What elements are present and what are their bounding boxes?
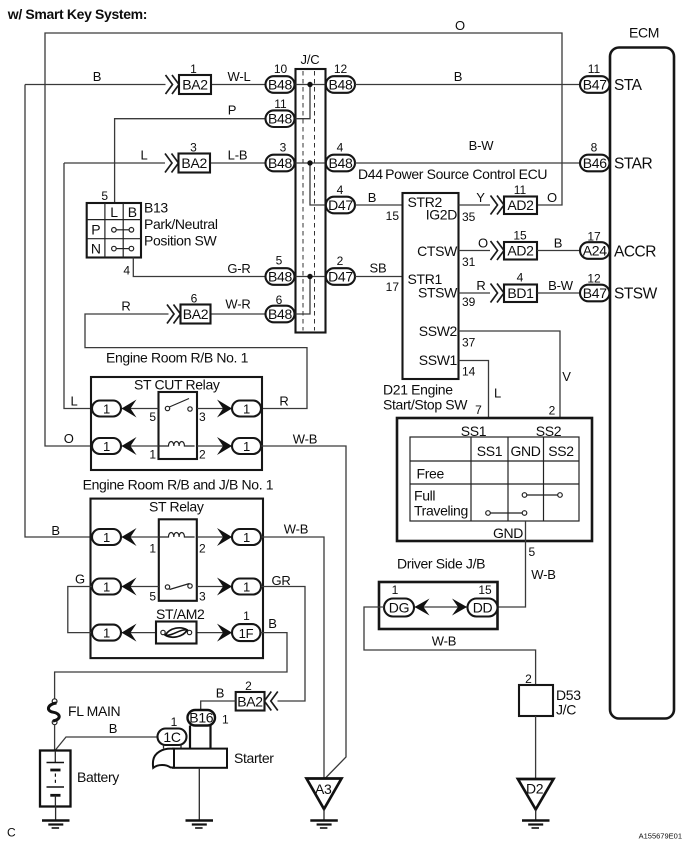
svg-text:STA: STA — [614, 77, 643, 94]
wire J/C internal riser to D47 pin4 — [310, 163, 326, 205]
svg-text:W-R: W-R — [225, 297, 250, 312]
terminal oval 1 row1 left — [92, 401, 121, 417]
svg-text:10: 10 — [274, 62, 288, 76]
connector B48 pin 12 — [326, 62, 355, 93]
svg-text:1: 1 — [171, 715, 178, 729]
svg-text:B: B — [554, 236, 562, 251]
wire B-W row3 right to ECM STAR — [355, 162, 580, 164]
svg-text:B: B — [368, 190, 376, 205]
svg-text:2: 2 — [525, 672, 532, 686]
svg-text:5: 5 — [149, 590, 156, 604]
wire J/C internal pin11 riser — [295, 85, 311, 119]
svg-text:L: L — [110, 204, 118, 220]
svg-text:3: 3 — [199, 410, 206, 424]
svg-text:W-B: W-B — [284, 522, 308, 537]
wire row3 L-B — [210, 162, 266, 164]
wire G loop row2 to row3 — [68, 587, 92, 633]
wire row2 P from B13 pin5 up to B48 pin11 — [115, 119, 266, 203]
svg-text:Full: Full — [414, 488, 435, 504]
svg-text:J/C: J/C — [301, 52, 320, 67]
svg-text:B48: B48 — [328, 155, 353, 171]
connector D47 pin 4 — [326, 183, 355, 213]
svg-text:N: N — [91, 241, 101, 257]
svg-text:D47: D47 — [328, 269, 353, 285]
svg-text:Traveling: Traveling — [414, 503, 468, 519]
svg-text:1: 1 — [243, 580, 250, 595]
wire D53 to ground D2 — [535, 716, 537, 779]
wire SSW2 to SS2 column — [459, 331, 561, 437]
wire B from D47 pin4 to D44 STR2 — [355, 204, 403, 206]
connector BD1 pin 4 — [491, 271, 538, 303]
label B13 Park/Neutral Position SW — [144, 200, 218, 249]
svg-text:R: R — [476, 278, 485, 293]
connector BA2 pin 6 — [167, 292, 211, 324]
junction box Driver Side J/B — [379, 582, 498, 629]
connector B48 pin 3 — [266, 141, 295, 172]
svg-text:ACCR: ACCR — [614, 244, 656, 261]
connector B48 pin 10 — [266, 62, 295, 93]
svg-text:Y: Y — [476, 190, 485, 205]
arrow row1 left — [122, 400, 137, 418]
svg-text:5: 5 — [149, 410, 156, 424]
svg-text:B-W: B-W — [548, 278, 574, 293]
wire W-R BA2 to B48 pin6 — [211, 313, 266, 315]
svg-text:1: 1 — [149, 448, 156, 462]
svg-text:B48: B48 — [268, 306, 293, 322]
svg-text:B47: B47 — [583, 285, 608, 301]
wire W-B from relay row2 to A3 — [261, 446, 346, 779]
svg-text:STSW: STSW — [418, 285, 458, 301]
wire row3 L left vertical to ST CUT relay — [64, 163, 92, 409]
relay block ST Relay box — [91, 499, 264, 658]
wire B from AD2 to A24 — [537, 250, 580, 252]
svg-text:6: 6 — [276, 293, 283, 307]
wire DG-DD internal — [414, 606, 468, 608]
battery — [40, 751, 71, 807]
switch contacts ST CUT relay — [165, 399, 192, 412]
svg-text:D21 Engine: D21 Engine — [383, 382, 453, 398]
svg-text:P: P — [228, 103, 236, 118]
svg-text:A155679E01: A155679E01 — [639, 832, 682, 841]
svg-text:O: O — [478, 236, 488, 251]
switch B13 park/neutral position SW — [87, 203, 141, 258]
svg-text:39: 39 — [462, 295, 476, 309]
svg-text:ST CUT Relay: ST CUT Relay — [134, 377, 220, 393]
svg-text:1F: 1F — [239, 626, 254, 641]
coil ST relay — [159, 533, 195, 538]
svg-text:2: 2 — [549, 404, 556, 418]
wire relay row1 internal — [121, 408, 232, 410]
terminal oval 1 coil right — [232, 529, 261, 545]
wire W-B from ST relay row1 to A3 — [261, 537, 324, 778]
svg-text:AD2: AD2 — [507, 243, 534, 259]
connector AD2 pin 11 — [491, 183, 538, 215]
svg-text:CTSW: CTSW — [417, 243, 458, 259]
fuse ST/AM2 — [156, 622, 197, 644]
svg-text:Driver Side J/B: Driver Side J/B — [397, 556, 485, 572]
ground D2 — [518, 779, 554, 828]
svg-text:B16: B16 — [189, 710, 214, 726]
svg-text:B: B — [128, 204, 137, 220]
svg-text:L-B: L-B — [228, 148, 248, 163]
svg-text:15: 15 — [513, 229, 527, 243]
svg-text:B: B — [268, 616, 276, 631]
wire row1 B to BA2 — [25, 84, 166, 86]
svg-text:4: 4 — [337, 141, 344, 155]
svg-text:1C: 1C — [163, 729, 180, 745]
svg-text:O: O — [455, 18, 465, 33]
wire row1 W-L BA2 to B48 — [211, 84, 266, 86]
svg-text:SSW1: SSW1 — [419, 352, 458, 368]
connector 1C — [158, 729, 187, 746]
wire O top loop from AD2 output over top and down left side — [45, 33, 562, 446]
connector B48 pin 5 — [266, 254, 295, 285]
svg-text:Start/Stop SW: Start/Stop SW — [383, 397, 468, 413]
wire W-B from DG to D53 — [364, 607, 536, 685]
svg-text:1: 1 — [222, 713, 229, 727]
connector BA2 pin 1 — [166, 62, 212, 94]
terminal oval 1 coil left — [92, 529, 121, 545]
connector DD pin 15 — [468, 583, 498, 617]
relay ST CUT relay inner box — [159, 392, 198, 459]
svg-text:B: B — [454, 69, 462, 84]
wire B13 pin4 G-R to B48 pin5 — [133, 258, 265, 277]
svg-text:J/C: J/C — [556, 702, 576, 718]
terminal oval 1 row2 right — [232, 438, 261, 454]
svg-text:L: L — [140, 148, 147, 163]
svg-text:Engine Room R/B and J/B No. 1: Engine Room R/B and J/B No. 1 — [83, 477, 274, 493]
svg-text:C: C — [7, 826, 16, 840]
svg-text:14: 14 — [462, 365, 476, 379]
wire B from 1F to FL MAIN and battery — [55, 633, 287, 699]
svg-text:STSW: STSW — [614, 286, 658, 303]
starter — [153, 726, 227, 768]
connector B47 pin 12 (STSW) — [580, 272, 610, 302]
svg-text:2: 2 — [199, 448, 206, 462]
svg-text:17: 17 — [386, 280, 400, 294]
svg-text:B: B — [51, 523, 59, 538]
wire B battery to 1C — [55, 737, 158, 751]
relay block Engine Room R/B and J/B No.1 box — [91, 377, 262, 470]
svg-text:37: 37 — [462, 336, 476, 350]
switch contacts ST relay — [165, 584, 192, 590]
arrow row1 right — [217, 400, 232, 418]
wire ST relay row2 internal — [121, 586, 232, 588]
svg-text:AD2: AD2 — [507, 197, 534, 213]
svg-text:1: 1 — [103, 580, 110, 595]
svg-text:3: 3 — [199, 590, 206, 604]
svg-text:4: 4 — [123, 264, 130, 278]
svg-text:P: P — [91, 222, 100, 238]
arrow row3 right — [217, 624, 232, 642]
svg-text:B13: B13 — [144, 200, 168, 216]
terminal oval 1F — [232, 609, 261, 641]
svg-text:11: 11 — [274, 97, 287, 111]
wire B-W from BD1 to B47 — [537, 292, 580, 294]
svg-text:Starter: Starter — [234, 750, 274, 766]
svg-text:12: 12 — [587, 272, 601, 286]
terminal oval 1 switch right — [232, 579, 261, 595]
connector B48 pin 11 — [266, 97, 295, 127]
svg-text:ECM: ECM — [629, 25, 659, 41]
wire through J/C row G-R — [295, 276, 326, 278]
connector BA2 pin 3 — [165, 141, 210, 173]
svg-text:GR: GR — [271, 573, 290, 588]
terminal oval 1 row2 left — [92, 438, 121, 454]
svg-text:B48: B48 — [268, 111, 293, 127]
svg-text:15: 15 — [386, 209, 400, 223]
connector BA2 pin 2 — [236, 679, 278, 711]
svg-text:1: 1 — [149, 542, 156, 556]
svg-text:L: L — [70, 394, 77, 409]
svg-text:7: 7 — [475, 403, 482, 417]
svg-text:Position SW: Position SW — [144, 233, 218, 249]
svg-text:W-B: W-B — [293, 432, 317, 447]
svg-text:35: 35 — [462, 210, 476, 224]
junction block J/C — [296, 52, 326, 333]
ECM box — [610, 25, 674, 719]
svg-text:A3: A3 — [315, 781, 332, 797]
svg-text:R: R — [121, 299, 130, 314]
wire ST relay row1 internal — [121, 536, 232, 538]
connector AD2 pin 15 — [491, 229, 538, 261]
svg-text:BA2: BA2 — [182, 77, 208, 93]
svg-text:G-R: G-R — [227, 261, 250, 276]
wire Y from D44 to AD2 — [459, 204, 491, 206]
svg-text:Engine Room R/B No. 1: Engine Room R/B No. 1 — [106, 350, 249, 366]
svg-text:Free: Free — [417, 466, 445, 482]
svg-text:B48: B48 — [268, 269, 293, 285]
svg-text:1: 1 — [103, 530, 110, 545]
svg-text:BD1: BD1 — [507, 285, 534, 301]
arrow DG — [415, 599, 430, 616]
svg-text:BA2: BA2 — [183, 306, 209, 322]
wire B row1 right to ECM STA — [355, 84, 580, 86]
node junction row3 — [307, 160, 312, 165]
wire through J/C row1 — [295, 84, 326, 86]
terminal oval 1 switch left — [92, 579, 121, 595]
svg-text:4: 4 — [517, 271, 524, 285]
svg-text:31: 31 — [462, 255, 476, 269]
svg-text:W-L: W-L — [228, 69, 251, 84]
wire SSW1 to SS1 column — [459, 361, 489, 438]
wire SB from D47 pin2 to D44 STR1 — [355, 276, 403, 278]
svg-text:A24: A24 — [583, 243, 608, 259]
svg-text:5: 5 — [529, 545, 536, 559]
svg-text:1: 1 — [243, 609, 250, 623]
wire relay row2 internal — [121, 445, 232, 447]
arrow row2 right — [217, 437, 232, 455]
fuse FL MAIN — [48, 699, 59, 725]
svg-text:2: 2 — [245, 679, 252, 693]
svg-text:R: R — [279, 394, 288, 409]
svg-text:BA2: BA2 — [237, 694, 263, 710]
coil ST CUT relay — [159, 442, 195, 447]
svg-text:FL MAIN: FL MAIN — [68, 703, 120, 719]
svg-text:17: 17 — [587, 230, 601, 244]
svg-text:ST Relay: ST Relay — [149, 499, 204, 515]
arrow row3 left — [122, 624, 137, 642]
svg-text:B48: B48 — [268, 77, 293, 93]
svg-text:B48: B48 — [328, 77, 353, 93]
svg-text:G: G — [75, 572, 85, 587]
svg-text:3: 3 — [190, 141, 197, 155]
wire FL MAIN to battery — [54, 725, 56, 751]
svg-text:6: 6 — [191, 292, 198, 306]
svg-text:1: 1 — [190, 62, 197, 76]
ground A3 — [307, 779, 342, 829]
svg-text:O: O — [547, 190, 557, 205]
svg-text:2: 2 — [199, 542, 206, 556]
svg-text:BA2: BA2 — [181, 155, 207, 171]
svg-text:D44Power Source Control ECU: D44Power Source Control ECU — [358, 166, 547, 182]
ground battery — [42, 807, 70, 829]
svg-text:STAR: STAR — [614, 156, 652, 173]
svg-text:ST/AM2: ST/AM2 — [156, 606, 205, 622]
svg-text:4: 4 — [337, 183, 344, 197]
wire O from D44 CTSW to AD2 — [459, 250, 491, 252]
svg-text:1: 1 — [243, 402, 250, 417]
svg-text:W-B: W-B — [432, 634, 456, 649]
svg-text:SS1: SS1 — [477, 443, 503, 459]
wire B from BA2 pin2 to B16 — [201, 701, 236, 711]
svg-text:IG2D: IG2D — [426, 207, 458, 223]
wire J/C internal pin6 riser — [295, 277, 311, 315]
svg-text:1: 1 — [392, 583, 399, 597]
arrow switch right — [217, 578, 232, 596]
svg-text:L: L — [494, 386, 501, 401]
svg-text:B-W: B-W — [469, 138, 495, 153]
wire ST relay row3 internal — [121, 632, 232, 634]
svg-text:11: 11 — [588, 62, 601, 76]
svg-text:3: 3 — [280, 141, 287, 155]
svg-text:SB: SB — [370, 261, 387, 276]
connector D47 pin 2 — [326, 254, 355, 285]
arrow row2 left — [122, 437, 137, 455]
svg-text:1: 1 — [243, 530, 250, 545]
connector B47 pin 11 (STA) — [580, 62, 610, 93]
svg-text:DD: DD — [473, 600, 493, 616]
junction box D53 J/C — [519, 672, 581, 718]
svg-text:D2: D2 — [526, 781, 544, 797]
connector B46 pin 8 (STAR) — [580, 141, 610, 172]
wire R from D44 STSW to BD1 — [459, 292, 491, 294]
label D21 Engine Start/Stop SW — [383, 382, 468, 413]
ground starter — [186, 768, 214, 828]
svg-text:B: B — [216, 686, 224, 701]
svg-text:w/ Smart Key System:: w/ Smart Key System: — [7, 6, 147, 22]
svg-text:B47: B47 — [583, 77, 608, 93]
arrow coil left — [122, 528, 137, 546]
switch D21 engine start/stop SW — [397, 418, 592, 541]
svg-text:1: 1 — [243, 439, 250, 454]
svg-text:DG: DG — [389, 600, 409, 616]
arrow DD — [452, 599, 467, 616]
svg-text:SS2: SS2 — [548, 443, 574, 459]
svg-text:Battery: Battery — [77, 769, 119, 785]
wire GR from ST relay row2 down to BA2 pin2 — [261, 587, 305, 702]
svg-text:V: V — [562, 369, 571, 384]
svg-text:B: B — [109, 721, 117, 736]
svg-text:B: B — [93, 69, 101, 84]
connector B48 pin 4 — [326, 141, 355, 172]
node junction row G-R — [307, 274, 312, 279]
wire B branch left vertical to ST Relay — [25, 85, 92, 538]
svg-text:2: 2 — [337, 254, 344, 268]
connector A24 pin 17 (ACCR) — [580, 230, 610, 259]
svg-text:B48: B48 — [268, 155, 293, 171]
arrow coil right — [217, 528, 232, 546]
svg-text:1: 1 — [103, 626, 110, 641]
relay ST Relay inner box — [159, 519, 197, 601]
svg-text:GND: GND — [510, 443, 540, 459]
arrow switch left — [122, 578, 137, 596]
svg-text:15: 15 — [478, 583, 492, 597]
svg-text:B46: B46 — [583, 155, 608, 171]
connector B48 pin 6 — [266, 293, 295, 322]
wire R from BA2 pin6 to ST CUT relay — [85, 314, 307, 409]
svg-text:5: 5 — [101, 189, 108, 203]
svg-text:8: 8 — [591, 141, 598, 155]
svg-text:Park/Neutral: Park/Neutral — [144, 216, 218, 232]
wire GND pin 5 down to DD — [498, 521, 526, 607]
svg-text:W-B: W-B — [531, 567, 555, 582]
svg-text:SSW2: SSW2 — [419, 323, 458, 339]
connector B16 — [188, 710, 216, 726]
node junction row1 — [307, 82, 312, 87]
svg-text:5: 5 — [276, 254, 283, 268]
svg-text:D47: D47 — [328, 197, 353, 213]
wire row3 L to BA2 — [64, 162, 165, 164]
ECU D44 box — [403, 193, 459, 379]
svg-text:GND: GND — [493, 525, 523, 541]
terminal oval 1 row1 right — [232, 401, 261, 417]
wire through J/C row3 — [295, 162, 326, 164]
svg-text:11: 11 — [514, 183, 527, 197]
connector DG pin 1 — [384, 583, 414, 617]
svg-text:O: O — [64, 431, 74, 446]
svg-text:12: 12 — [334, 62, 348, 76]
svg-text:1: 1 — [103, 439, 110, 454]
terminal oval 1 row3 left — [92, 625, 121, 641]
svg-text:1: 1 — [103, 402, 110, 417]
